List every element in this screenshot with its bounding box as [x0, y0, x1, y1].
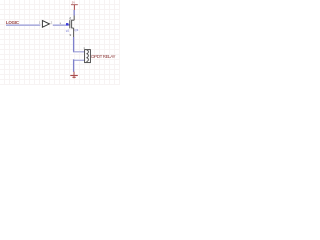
svg-text:5V: 5V: [72, 0, 75, 4]
svg-text:s: s: [70, 33, 72, 37]
svg-text:DPDT RELAY: DPDT RELAY: [91, 54, 115, 59]
svg-text:d: d: [69, 17, 71, 21]
svg-text:LOGIC: LOGIC: [6, 20, 20, 25]
svg-text:g1: g1: [66, 28, 70, 32]
svg-text:Q1: Q1: [74, 28, 78, 32]
